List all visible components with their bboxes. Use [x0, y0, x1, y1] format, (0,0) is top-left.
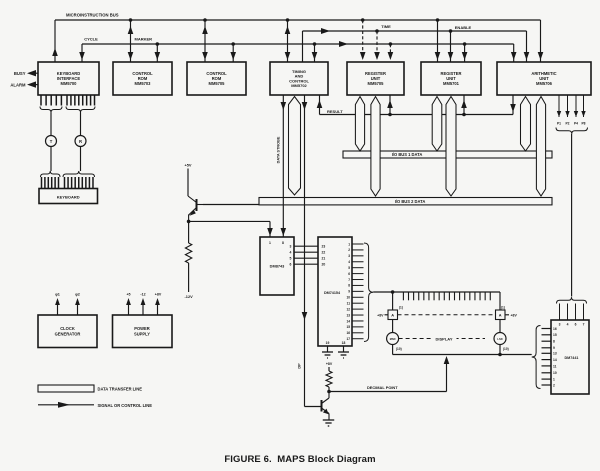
block U10 DM7441 driver — [551, 320, 589, 394]
svg-text:11: 11 — [553, 364, 557, 368]
svg-text:SUPPLY: SUPPLY — [134, 332, 150, 337]
svg-text:(10): (10) — [396, 347, 402, 351]
svg-text:MM5705: MM5705 — [209, 81, 226, 86]
svg-text:11: 11 — [347, 302, 351, 306]
wire: MARKER bus link to control ROM 1 + label — [128, 18, 152, 62]
svg-text:15: 15 — [346, 325, 350, 329]
DM74154 output pins 1-17 — [346, 242, 363, 341]
wire: DECIMAL POINT line — [329, 385, 447, 392]
svg-text:8: 8 — [282, 241, 284, 245]
wire: dashed bus drop into register unit MM5705 — [360, 18, 366, 60]
wire: bus corner into arithmetic unit — [538, 20, 544, 62]
DM7441 left pins — [542, 327, 557, 388]
wire: LSD to cathode line — [499, 345, 501, 355]
svg-text:9: 9 — [348, 290, 350, 294]
wire: digit drive line to display — [373, 292, 500, 310]
anode box A (LSD) — [496, 306, 506, 320]
svg-text:6: 6 — [290, 263, 292, 267]
wire: R circle to keyboard brace — [80, 147, 82, 172]
svg-text:17: 17 — [346, 337, 350, 341]
display digit MSD — [387, 333, 402, 351]
resistor R1 — [185, 243, 191, 263]
wire: display cathode line — [393, 353, 532, 357]
svg-text:R: R — [79, 139, 82, 144]
brace under P outputs — [556, 128, 588, 134]
svg-text:1: 1 — [269, 241, 271, 245]
svg-text:P1: P1 — [557, 122, 561, 126]
svg-text:I/O BUS 2 DATA: I/O BUS 2 DATA — [395, 199, 426, 204]
svg-text:(10): (10) — [503, 347, 509, 351]
svg-text:DATA STROBE: DATA STROBE — [277, 136, 281, 163]
wire: dashed CYCLE drop into register unit MM5705 — [388, 42, 394, 60]
wire: DM8743 pin 5 to DM74154 pin 21 — [294, 257, 318, 259]
svg-text:19: 19 — [326, 341, 330, 345]
svg-text:DISPLAY: DISPLAY — [436, 337, 453, 342]
wire: Q1 emitter to resistor R1 — [188, 221, 190, 243]
block U4 timing and control MM5702 — [270, 62, 328, 95]
svg-text:5: 5 — [290, 257, 292, 261]
svg-text:MSD: MSD — [390, 337, 396, 341]
svg-text:+8V: +8V — [377, 313, 384, 317]
svg-text:φ1: φ1 — [55, 293, 60, 297]
wire: junction to left anode box — [392, 292, 394, 310]
resistor R2 — [326, 371, 332, 387]
ground at DM74154 pin 19 — [322, 352, 333, 358]
svg-text:MM5701: MM5701 — [443, 81, 460, 86]
svg-text:ENABLE: ENABLE — [455, 25, 472, 30]
svg-text:MM5705: MM5705 — [368, 81, 385, 86]
wire: keyboard interface to microinstruction bus — [52, 20, 58, 62]
ground at DM74154 pin 18 — [338, 352, 349, 358]
brace right of DM74154 outputs — [364, 243, 373, 342]
wire: RESULT into timing and control — [317, 95, 323, 115]
keyboard pins left group — [42, 177, 59, 189]
svg-text:P8: P8 — [581, 122, 585, 126]
power supply outputs — [126, 293, 162, 316]
svg-text:6: 6 — [575, 322, 577, 326]
node: Q1 emitter junction — [187, 220, 191, 224]
wire: +5V to Q1 — [187, 169, 189, 197]
svg-text:MARKER: MARKER — [135, 37, 153, 42]
svg-text:+8V: +8V — [155, 293, 162, 297]
svg-text:8: 8 — [348, 284, 350, 288]
svg-text:10: 10 — [346, 296, 350, 300]
node: decimal point node — [327, 390, 331, 394]
transistor Q1 — [188, 196, 203, 221]
svg-text:16: 16 — [346, 331, 350, 335]
svg-text:4: 4 — [290, 251, 292, 255]
svg-text:MM5706: MM5706 — [536, 81, 553, 86]
svg-text:ALARM: ALARM — [10, 82, 26, 87]
signal BUSY output arrow — [14, 70, 38, 76]
svg-text:9: 9 — [553, 346, 555, 350]
power +8V into left anode — [377, 313, 388, 317]
wire: RESULT from arithmetic unit — [510, 95, 516, 115]
brace left of DM7441 pins — [532, 326, 541, 389]
hollow arrow: register MM5705 to bus 1 — [355, 97, 364, 152]
block U8 DM8743 — [260, 237, 294, 295]
svg-text:3: 3 — [559, 322, 561, 326]
wire: CYCLE junction into timing and control — [312, 42, 318, 62]
block power supply — [113, 315, 173, 348]
keyboard pins right group — [65, 177, 93, 189]
svg-text:13: 13 — [346, 313, 350, 317]
svg-text:5: 5 — [348, 266, 350, 270]
bus bar: I/O BUS 2 DATA — [259, 198, 552, 205]
wire: T pins to transmit circle — [50, 113, 52, 136]
block U5 register unit MM5705 — [347, 62, 404, 95]
block U1 keyboard interface MM5700 — [38, 62, 99, 95]
svg-text:1: 1 — [348, 242, 350, 246]
svg-text:16: 16 — [553, 327, 557, 331]
wire: DM8743 pin 4 to DM74154 pin 22 — [294, 251, 318, 253]
svg-text:15: 15 — [553, 333, 557, 337]
svg-text:SIGNAL OR CONTROL LINE: SIGNAL OR CONTROL LINE — [98, 403, 153, 408]
svg-text:P4: P4 — [574, 122, 578, 126]
power +8V into right anode — [505, 313, 517, 317]
svg-text:MM5702: MM5702 — [291, 83, 307, 88]
transistor Q2 — [322, 392, 330, 421]
signal ALARM output arrow — [10, 81, 38, 87]
svg-text:+8V: +8V — [326, 362, 333, 366]
block clock generator — [38, 315, 97, 348]
wire: CYCLE into control ROM 2 — [230, 42, 236, 62]
svg-text:CLOCK: CLOCK — [60, 326, 75, 331]
wire: CYCLE into keyboard interface — [79, 44, 85, 62]
wire: R pins to receive circle — [80, 113, 82, 136]
display digit LSD — [494, 333, 509, 351]
wire: RESULT line — [320, 109, 514, 115]
wire: decimal point arrow into display — [444, 356, 450, 392]
wire: T circle to keyboard brace — [50, 147, 52, 172]
wire: cathode line to DM7441 brace — [531, 354, 533, 356]
svg-text:LSD: LSD — [497, 337, 502, 341]
svg-text:20: 20 — [322, 263, 326, 267]
block U9 DM74154 decoder — [318, 237, 352, 346]
svg-text:DM8743: DM8743 — [270, 264, 286, 269]
svg-text:13: 13 — [553, 352, 557, 356]
node R circle — [75, 136, 86, 147]
hollow arrow: register MM5701 to bus 1 — [432, 97, 442, 152]
wire: CYCLE drop into register unit MM5701 — [462, 42, 468, 62]
svg-text:21: 21 — [322, 257, 326, 261]
power +8V label for R2 — [326, 362, 333, 366]
svg-text:DM74154: DM74154 — [324, 291, 341, 295]
node T circle — [46, 136, 57, 147]
svg-text:-12V: -12V — [184, 294, 193, 299]
svg-text:KEYBOARD: KEYBOARD — [57, 194, 80, 199]
svg-text:4: 4 — [567, 322, 569, 326]
svg-text:3: 3 — [290, 245, 292, 249]
power -12V label — [184, 294, 193, 299]
bus bar: I/O BUS 1 DATA — [343, 151, 552, 158]
block U7 arithmetic unit MM5706 — [497, 62, 591, 95]
wire: CYCLE into control ROM 1 — [155, 42, 161, 62]
wire: MICROINSTRUCTION BUS horizontal line — [55, 13, 541, 21]
svg-text:MM5700: MM5700 — [61, 81, 78, 86]
wire: CYCLE corner into arithmetic unit — [511, 44, 517, 62]
wire: MSD to cathode line — [392, 345, 394, 355]
wire: DM8743 pin 3 to DM74154 pin 23 — [294, 245, 318, 247]
wire: RESULT into register MM5701 — [461, 95, 467, 116]
svg-text:A: A — [391, 313, 394, 318]
svg-text:7: 7 — [348, 278, 350, 282]
anode box A (MSD) — [388, 306, 403, 320]
wire: TIME/ENABLE control line — [303, 24, 527, 34]
wire: timing/control to DM8743 pin 8 — [281, 95, 287, 237]
wire: right anode to LSD digit — [499, 320, 501, 333]
wire: left anode to MSD digit — [392, 320, 394, 333]
wire: Q1 emitter to DM8743 pin 1 — [189, 221, 273, 237]
wire: DM74154 ground pin 18 — [343, 346, 345, 352]
svg-text:1: 1 — [553, 378, 555, 382]
svg-text:-12: -12 — [140, 293, 145, 297]
svg-text:2: 2 — [348, 248, 350, 252]
svg-text:2: 2 — [553, 383, 555, 387]
dashed line between anode boxes — [398, 314, 496, 316]
svg-text:7: 7 — [583, 322, 585, 326]
svg-text:6: 6 — [348, 272, 350, 276]
wire: +8V to R2 — [328, 367, 330, 371]
svg-text:8: 8 — [553, 340, 555, 344]
wire: DM8743 pin 6 to DM74154 pin 20 — [294, 263, 318, 265]
DM7441 top pins — [559, 304, 585, 327]
block U2 control ROM MM5703 — [113, 62, 172, 95]
svg-text:14: 14 — [346, 319, 350, 323]
clock phase outputs — [55, 293, 80, 316]
svg-text:+5V: +5V — [184, 163, 191, 168]
svg-text:MICROINSTRUCTION BUS: MICROINSTRUCTION BUS — [66, 13, 119, 18]
svg-text:+5: +5 — [126, 293, 130, 297]
wire: digit strobe line to Q2 base — [298, 95, 322, 407]
svg-text:T: T — [50, 139, 53, 144]
hollow arrow: arithmetic unit to bus 2 — [536, 97, 545, 197]
wire: DM74154 ground pin 19 — [327, 346, 329, 352]
svg-text:φ2: φ2 — [75, 293, 80, 297]
svg-text:+8V: +8V — [511, 313, 518, 317]
svg-text:10: 10 — [553, 371, 557, 375]
legend: data transfer line symbol — [38, 385, 142, 392]
brace over DM7441 inputs — [557, 297, 587, 303]
svg-text:DP: DP — [298, 363, 302, 369]
power +5V label — [184, 163, 191, 168]
brace under pin group T — [40, 107, 62, 113]
svg-text:(1): (1) — [399, 306, 403, 310]
wire: bus link to control ROM 2 — [202, 18, 208, 62]
svg-text:3: 3 — [348, 254, 350, 258]
display digit drive comb — [403, 292, 490, 300]
svg-text:DECIMAL POINT: DECIMAL POINT — [367, 385, 398, 390]
svg-text:CYCLE: CYCLE — [84, 37, 98, 42]
keyboard interface output pins group R — [67, 95, 95, 106]
brace over keyboard pins right — [63, 171, 95, 177]
svg-text:RESULT: RESULT — [327, 109, 343, 114]
wire: P outputs to DM7441 — [571, 134, 573, 297]
svg-text:BUSY: BUSY — [14, 71, 26, 76]
wire: bus drop into register unit MM5701 — [435, 18, 441, 62]
svg-text:DM7441: DM7441 — [565, 356, 579, 360]
node: junction at MSD column — [391, 290, 395, 294]
block U6 register unit MM5701 — [421, 62, 481, 95]
svg-text:P2: P2 — [565, 122, 569, 126]
wire: TIME drop into register unit MM5701 — [448, 29, 454, 62]
block U3 control ROM MM5705 — [187, 62, 246, 95]
legend: signal or control line symbol — [38, 402, 152, 408]
svg-text:(1): (1) — [501, 306, 505, 310]
svg-text:14: 14 — [553, 358, 557, 362]
wire: TIME corner into arithmetic unit — [524, 31, 530, 62]
svg-text:12: 12 — [346, 307, 350, 311]
svg-text:FIGURE 6. MAPS Block Diagram: FIGURE 6. MAPS Block Diagram — [224, 454, 375, 465]
dashed line between digits and DISPLAY label — [399, 336, 485, 342]
svg-text:23: 23 — [322, 245, 326, 249]
wire: R2 to node — [328, 387, 330, 392]
svg-text:4: 4 — [348, 260, 350, 264]
svg-text:A: A — [499, 313, 502, 318]
hollow arrow: register MM5701 to bus 2 — [446, 97, 456, 197]
block keyboard — [39, 189, 98, 204]
svg-text:GENERATOR: GENERATOR — [55, 332, 81, 337]
hollow arrow: register MM5705 to bus 2 — [371, 97, 380, 197]
wire: TIME line from timing and control — [302, 31, 304, 62]
wire: Q1 collector to I/O bus 2 — [203, 204, 259, 206]
wire: bus link to timing and control — [285, 18, 291, 62]
svg-text:POWER: POWER — [134, 326, 150, 331]
keyboard interface output pins group T — [41, 95, 61, 106]
brace over keyboard pins left — [41, 171, 61, 177]
wire: CYCLE control line — [82, 37, 514, 48]
svg-text:22: 22 — [322, 251, 326, 255]
svg-text:DATA TRANSFER LINE: DATA TRANSFER LINE — [98, 386, 143, 391]
arithmetic unit P1 P2 P4 P8 outputs — [557, 95, 586, 126]
wire: RESULT into register MM5705 — [387, 95, 393, 116]
brace under pin group R — [66, 107, 95, 113]
hollow arrow: arithmetic unit to bus 1 — [521, 97, 531, 152]
svg-text:MM5703: MM5703 — [135, 81, 152, 86]
svg-text:18: 18 — [342, 341, 346, 345]
svg-text:TIME: TIME — [381, 24, 391, 29]
svg-text:I/O BUS 1 DATA: I/O BUS 1 DATA — [392, 152, 423, 157]
wire: dashed TIME drop into register unit MM5705 — [374, 29, 380, 60]
ground at Q2 emitter — [323, 420, 335, 426]
wire: R1 to -12V — [188, 263, 190, 292]
hollow arrow: DATA STROBE timing/control to bus 2 — [277, 97, 301, 196]
caption: FIGURE 6 MAPS Block Diagram — [224, 454, 375, 465]
